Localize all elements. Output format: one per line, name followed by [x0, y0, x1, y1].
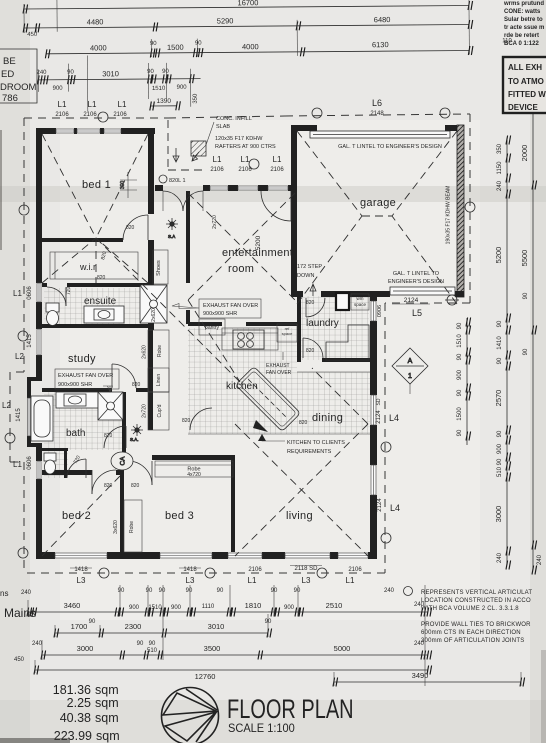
scan band — [0, 186, 546, 202]
svg-text:1415: 1415 — [16, 408, 22, 422]
door laundry bottom — [303, 338, 323, 358]
svg-text:DOWN: DOWN — [297, 273, 314, 279]
svg-text:820: 820 — [299, 420, 308, 426]
svg-text:2x620: 2x620 — [151, 308, 157, 322]
svg-text:0606: 0606 — [27, 456, 33, 470]
svg-text:90: 90 — [457, 429, 463, 436]
svg-text:2124: 2124 — [404, 297, 419, 304]
svg-text:1390: 1390 — [156, 98, 171, 105]
roof line bed2 — [42, 476, 120, 556]
svg-text:300mm OF ARTICULATION JOINT: 300mm OF ARTICULATION JOINTS — [421, 638, 524, 644]
right vertical dim line V1 — [466, 318, 468, 445]
svg-text:820: 820 — [104, 433, 113, 439]
laundry left wall — [297, 297, 301, 358]
smoke alarm entry — [166, 218, 178, 239]
svg-text:90: 90 — [523, 348, 529, 355]
svg-text:2148: 2148 — [370, 111, 384, 117]
ref space — [277, 324, 297, 342]
bed2/bed3 wall — [120, 475, 124, 552]
svg-text:laundry: laundry — [306, 318, 339, 329]
svg-text:REPRESENTS VERTICAL ARTICULA: REPRESENTS VERTICAL ARTICULAT — [421, 590, 532, 596]
svg-text:450: 450 — [14, 657, 25, 663]
bottom dim row D 12760 — [35, 669, 428, 671]
svg-text:90: 90 — [457, 353, 463, 360]
svg-text:172 STEP: 172 STEP — [297, 264, 322, 270]
svg-text:2300: 2300 — [125, 622, 142, 631]
svg-text:Robe: Robe — [157, 345, 163, 357]
svg-text:2570: 2570 — [494, 390, 503, 407]
bottom dim row B — [55, 632, 268, 634]
svg-text:BE: BE — [3, 56, 16, 67]
door kitchen hall — [190, 408, 212, 430]
garage right wall — [457, 125, 464, 297]
svg-text:KITCHEN TO CLIENTS: KITCHEN TO CLIENTS — [287, 440, 345, 446]
svg-text:90: 90 — [118, 588, 125, 594]
svg-text:3000: 3000 — [77, 644, 94, 653]
right vertical dim line V3 — [532, 60, 534, 570]
svg-text:240: 240 — [21, 590, 32, 596]
svg-text:sqm: sqm — [95, 683, 119, 697]
svg-text:0906: 0906 — [377, 305, 383, 317]
ceiling symbol CA — [111, 452, 133, 470]
svg-text:90: 90 — [265, 619, 272, 625]
svg-text:L3: L3 — [186, 576, 195, 585]
sqm figures — [53, 683, 120, 743]
bed3 robe — [155, 461, 233, 477]
svg-text:L5: L5 — [412, 308, 422, 318]
svg-text:90: 90 — [149, 641, 156, 647]
svg-text:240: 240 — [32, 641, 43, 647]
svg-text:90: 90 — [497, 357, 503, 364]
door bath — [104, 426, 126, 448]
svg-text:EXHAUST: EXHAUST — [266, 363, 290, 369]
svg-text:3500: 3500 — [204, 644, 221, 653]
svg-text:3490: 3490 — [412, 671, 429, 680]
svg-text:wm: wm — [357, 296, 364, 301]
svg-text:4000: 4000 — [90, 43, 107, 52]
interior wall study/bath — [42, 388, 112, 392]
bath tub — [31, 396, 53, 441]
svg-text:PROVIDE WALL TIES TO BRICK: PROVIDE WALL TIES TO BRICKWOR — [421, 622, 531, 628]
svg-text:wrms prutund: wrms prutund — [503, 1, 544, 7]
svg-text:510: 510 — [147, 648, 158, 654]
svg-text:12760: 12760 — [195, 672, 216, 681]
svg-text:space: space — [354, 302, 367, 307]
door bed1 — [123, 215, 148, 240]
svg-text:2106: 2106 — [55, 112, 69, 118]
svg-text:2106: 2106 — [83, 112, 97, 118]
door study — [112, 364, 136, 388]
svg-text:350: 350 — [193, 93, 199, 104]
exterior wall left — [36, 128, 42, 283]
svg-text:181.36: 181.36 — [53, 683, 91, 697]
svg-text:2106: 2106 — [210, 167, 224, 173]
svg-text:2000: 2000 — [520, 145, 529, 162]
svg-text:L1: L1 — [13, 460, 22, 469]
svg-text:Robe: Robe — [129, 521, 135, 533]
svg-text:720: 720 — [66, 286, 72, 295]
bottom right notes — [404, 587, 533, 645]
svg-text:EXHAUST FAN OVER: EXHAUST FAN OVER — [58, 373, 113, 379]
svg-text:TO ATMO: TO ATMO — [508, 77, 544, 86]
articulation circles bottom — [99, 568, 109, 578]
porch arrows — [173, 148, 179, 162]
tiled floor ensuite — [44, 288, 142, 324]
kitchen bench — [222, 328, 278, 350]
svg-text:L1: L1 — [248, 576, 257, 585]
svg-text:1: 1 — [408, 373, 412, 380]
wc toilet — [44, 453, 56, 474]
svg-text:Linen: Linen — [156, 374, 162, 386]
svg-text:90: 90 — [186, 588, 193, 594]
svg-text:1150: 1150 — [497, 161, 503, 175]
svg-text:90: 90 — [195, 41, 202, 47]
tiled floor wc — [44, 450, 68, 478]
svg-text:0606: 0606 — [27, 286, 33, 300]
eave top — [24, 114, 470, 118]
svg-text:GAL. T LINTEL TO: GAL. T LINTEL TO — [393, 271, 440, 277]
svg-text:2106: 2106 — [270, 167, 284, 173]
bottom windows — [55, 553, 368, 558]
svg-text:900: 900 — [129, 605, 140, 611]
garage rear lintel — [390, 287, 455, 295]
windows bed1 top — [56, 129, 121, 133]
svg-text:RAFTERS AT 900 CTRS: RAFTERS AT 900 CTRS — [215, 144, 276, 150]
bed2/3 robe strip — [124, 500, 142, 552]
svg-text:300: 300 — [120, 181, 126, 190]
floor plan title — [227, 694, 354, 725]
wm space — [351, 294, 369, 310]
svg-text:3460: 3460 — [64, 601, 81, 610]
svg-text:S.A.: S.A. — [130, 437, 139, 442]
exhaust device box — [503, 57, 546, 113]
dim 300 bed1 — [120, 172, 137, 198]
svg-text:900: 900 — [497, 443, 503, 454]
svg-text:90: 90 — [497, 430, 503, 437]
svg-text:dining: dining — [312, 412, 343, 424]
svg-text:900x900 SHR: 900x900 SHR — [58, 382, 92, 388]
island bench — [235, 366, 300, 431]
interior wall ensuite/study — [42, 324, 148, 328]
door laundry top — [306, 298, 325, 317]
svg-text:REQUIREMENTS: REQUIREMENTS — [287, 449, 332, 455]
svg-text:90: 90 — [217, 588, 224, 594]
svg-text:820: 820 — [126, 225, 135, 231]
svg-text:tr acte ssue m: tr acte ssue m — [504, 25, 544, 31]
svg-text:900: 900 — [53, 86, 64, 92]
svg-text:2x720: 2x720 — [212, 215, 218, 229]
svg-text:900x900 SHR: 900x900 SHR — [203, 311, 237, 317]
svg-text:L2: L2 — [15, 352, 24, 361]
svg-text:garage: garage — [360, 197, 396, 209]
svg-text:ns: ns — [0, 589, 8, 598]
svg-text:L1: L1 — [273, 155, 282, 164]
svg-text:190x35 F17 KDHW BEAM: 190x35 F17 KDHW BEAM — [446, 186, 452, 245]
stove — [233, 330, 264, 349]
door ensuite — [47, 287, 66, 306]
svg-text:240: 240 — [384, 588, 395, 594]
section marker A1 — [392, 348, 428, 394]
eave bottom — [24, 572, 385, 574]
svg-text:2118 SD: 2118 SD — [295, 566, 319, 572]
svg-text:1500: 1500 — [167, 43, 184, 52]
svg-text:1410: 1410 — [497, 336, 503, 350]
bath vanity — [56, 392, 98, 408]
svg-text:L1: L1 — [241, 155, 250, 164]
svg-text:90: 90 — [89, 619, 96, 625]
svg-text:kitchen: kitchen — [226, 381, 258, 392]
wc wall — [42, 448, 68, 451]
svg-text:pantry: pantry — [205, 325, 219, 331]
svg-text:240: 240 — [497, 552, 503, 563]
svg-text:2106: 2106 — [348, 567, 362, 573]
svg-text:1510: 1510 — [457, 334, 463, 348]
svg-text:A: A — [408, 358, 413, 365]
svg-text:L4: L4 — [390, 503, 400, 513]
svg-text:2106: 2106 — [113, 112, 127, 118]
svg-text:ED: ED — [1, 69, 14, 80]
bath shower — [98, 392, 123, 420]
svg-text:sqm: sqm — [95, 711, 119, 725]
svg-text:L2: L2 — [2, 401, 11, 410]
ensuite vanity — [84, 306, 124, 323]
svg-text:bed 3: bed 3 — [165, 510, 194, 522]
bottom dim row C — [42, 654, 428, 656]
svg-text:1510: 1510 — [148, 605, 162, 611]
svg-text:5290: 5290 — [217, 16, 234, 25]
svg-text:CA: CA — [120, 456, 127, 466]
svg-text:sqm: sqm — [96, 729, 120, 743]
interior wall wir/ensuite — [42, 283, 47, 287]
svg-text:2106: 2106 — [248, 567, 262, 573]
top dim line row4 — [39, 79, 201, 80]
robe column wall — [148, 324, 153, 430]
wir robe shelving — [50, 252, 138, 279]
svg-text:Cup'd: Cup'd — [157, 404, 163, 417]
svg-text:900: 900 — [177, 85, 188, 91]
edge artifacts — [0, 130, 2, 250]
kitchen top wall — [188, 322, 222, 326]
bed3/living wall — [231, 455, 235, 552]
bottom dim row A — [28, 611, 428, 613]
svg-text:240: 240 — [497, 180, 503, 191]
svg-text:350: 350 — [497, 143, 503, 154]
svg-text:2.25: 2.25 — [67, 696, 91, 710]
dim 1390 — [151, 105, 177, 107]
svg-text:820L 1: 820L 1 — [169, 178, 186, 184]
svg-text:S.A: S.A — [168, 234, 175, 239]
bath bay walls — [27, 377, 42, 381]
bed2 top wall — [42, 470, 92, 475]
svg-text:L6: L6 — [372, 98, 382, 108]
roof valley to kitchen — [96, 238, 240, 382]
vignette — [0, 0, 30, 743]
svg-text:SD: SD — [376, 398, 382, 405]
annotation exhaust fan bath — [55, 369, 119, 392]
svg-text:90: 90 — [457, 389, 463, 396]
entry wall — [155, 185, 163, 191]
svg-text:820: 820 — [97, 275, 106, 281]
svg-text:1500: 1500 — [457, 407, 463, 421]
svg-text:786: 786 — [2, 93, 18, 104]
svg-text:L3: L3 — [77, 576, 86, 585]
svg-text:3x620: 3x620 — [113, 520, 119, 534]
svg-text:1810: 1810 — [245, 601, 262, 610]
svg-text:40.38: 40.38 — [60, 711, 91, 725]
porch outline dashed — [168, 120, 204, 170]
svg-text:450: 450 — [27, 32, 38, 38]
window left 0606 ensuite — [37, 283, 41, 302]
door bed2 — [92, 470, 116, 494]
svg-text:L1: L1 — [118, 100, 127, 109]
svg-text:FITTED W: FITTED W — [508, 90, 546, 99]
svg-text:WITH BCA VOLUME 2 CL. 3.3: WITH BCA VOLUME 2 CL. 3.3.1.8 — [421, 606, 519, 612]
svg-text:w.i.r: w.i.r — [79, 262, 96, 272]
svg-text:900: 900 — [171, 605, 182, 611]
svg-text:1110: 1110 — [202, 604, 215, 610]
bed1 top wall with windows — [36, 128, 56, 134]
tiled floor bath — [44, 392, 122, 450]
svg-text:CONE: watts: CONE: watts — [504, 9, 541, 15]
laundry bench — [326, 325, 369, 360]
svg-text:sqm: sqm — [95, 696, 119, 710]
svg-text:5000: 5000 — [334, 644, 351, 653]
articulation circles right — [465, 202, 475, 212]
svg-text:2x620: 2x620 — [142, 345, 148, 359]
ent room left wall — [186, 191, 190, 283]
svg-text:room: room — [228, 263, 254, 275]
annotation exhaust fan ensuite — [172, 299, 261, 318]
hall wall below bed1 door — [148, 240, 154, 330]
garage bottom wall — [291, 291, 303, 297]
window left 0606 wc — [37, 461, 41, 479]
svg-text:90: 90 — [497, 320, 503, 327]
garage corner marker — [445, 295, 459, 305]
door wc — [67, 459, 86, 478]
tile edge line — [188, 433, 370, 435]
svg-text:DROOM: DROOM — [0, 82, 37, 93]
top left cut box — [0, 49, 37, 104]
door ent/garage — [261, 191, 291, 221]
svg-text:5500: 5500 — [520, 250, 529, 267]
svg-text:LOCATION CONSTRUCTED IN ACC: LOCATION CONSTRUCTED IN ACCO — [421, 598, 531, 604]
wir shoes shelf — [153, 250, 168, 284]
pantry — [199, 319, 225, 335]
entry double doors — [163, 191, 183, 211]
svg-text:4x720: 4x720 — [187, 472, 201, 478]
svg-text:820: 820 — [132, 382, 141, 388]
eave right house — [384, 303, 386, 573]
porch conc infill hatch — [191, 141, 206, 156]
svg-text:SCALE 1:100: SCALE 1:100 — [228, 723, 295, 735]
svg-text:3010: 3010 — [208, 622, 225, 631]
top dim line row2 — [24, 25, 469, 28]
svg-text:1700: 1700 — [71, 622, 88, 631]
logo — [162, 688, 219, 743]
svg-text:L4: L4 — [389, 413, 399, 423]
svg-text:4480: 4480 — [87, 17, 104, 26]
entry wall windows — [210, 186, 288, 190]
svg-text:2106: 2106 — [238, 167, 252, 173]
roof lines living X — [235, 368, 368, 556]
svg-text:90: 90 — [457, 322, 463, 329]
bed3 top wall — [152, 455, 235, 460]
svg-text:L3: L3 — [302, 576, 311, 585]
svg-text:90: 90 — [271, 588, 278, 594]
articulation circles left — [19, 205, 29, 215]
svg-text:820: 820 — [131, 483, 140, 489]
top dim line 16700 — [24, 6, 469, 9]
porch downpipe label — [159, 175, 167, 183]
svg-text:900: 900 — [284, 605, 295, 611]
svg-text:GAL. T LINTEL TO ENGINEER'S DE: GAL. T LINTEL TO ENGINEER'S DESIGN — [338, 144, 442, 150]
svg-text:90: 90 — [497, 458, 503, 465]
bath right wall — [122, 392, 126, 452]
svg-text:1415: 1415 — [27, 334, 33, 348]
roof lines ent room — [188, 193, 297, 302]
svg-text:SLAB: SLAB — [216, 124, 230, 130]
svg-text:1510: 1510 — [152, 86, 166, 92]
svg-text:bed 1: bed 1 — [82, 179, 111, 191]
svg-text:bath: bath — [66, 428, 85, 439]
svg-text:900: 900 — [457, 369, 463, 380]
laundry bottom wall — [297, 358, 301, 362]
svg-text:6130: 6130 — [372, 40, 389, 49]
door bed3 — [128, 461, 152, 485]
svg-text:90: 90 — [294, 588, 301, 594]
svg-text:820: 820 — [104, 483, 113, 489]
svg-text:FAN OVER: FAN OVER — [266, 370, 292, 376]
svg-text:120x35 F17 KDHW: 120x35 F17 KDHW — [215, 136, 263, 142]
svg-text:2124: 2124 — [377, 498, 383, 512]
tiled floor laundry — [301, 296, 369, 360]
roof lines garage — [297, 131, 457, 304]
smoke alarm hall — [130, 424, 143, 442]
window left 1415 study — [37, 329, 41, 355]
svg-text:5200: 5200 — [494, 247, 503, 264]
svg-text:L1: L1 — [88, 100, 97, 109]
svg-text:DEVICE: DEVICE — [508, 103, 538, 112]
svg-text:90: 90 — [162, 69, 169, 75]
bottom dim row E 3490 — [334, 681, 521, 683]
svg-text:L1: L1 — [13, 289, 22, 298]
eave left — [10, 118, 24, 573]
garage door lintel — [310, 131, 450, 138]
svg-text:FLOOR PLAN: FLOOR PLAN — [227, 694, 354, 725]
svg-text:820: 820 — [306, 300, 315, 306]
svg-text:ENGINEER'S DESIGN: ENGINEER'S DESIGN — [388, 279, 444, 285]
svg-text:4000: 4000 — [242, 42, 259, 51]
svg-text:L1: L1 — [346, 576, 355, 585]
garage left wall — [291, 125, 297, 296]
svg-text:L1: L1 — [213, 155, 222, 164]
bottom wall — [36, 552, 55, 559]
svg-text:5200: 5200 — [255, 235, 262, 250]
svg-text:2510: 2510 — [326, 601, 343, 610]
svg-text:bed 2: bed 2 — [62, 510, 91, 522]
svg-text:240: 240 — [537, 554, 543, 565]
bed1 right wall — [148, 128, 154, 214]
svg-text:820: 820 — [182, 418, 191, 424]
svg-text:rde be retert: rde be retert — [504, 33, 539, 39]
svg-text:820: 820 — [306, 348, 315, 354]
svg-text:L1: L1 — [58, 100, 67, 109]
house right wall — [370, 296, 377, 301]
study robe column — [148, 330, 169, 430]
svg-text:600mm CTS IN EACH DIRECTIO: 600mm CTS IN EACH DIRECTION — [421, 630, 521, 636]
svg-text:90: 90 — [137, 641, 144, 647]
garage top wall — [291, 125, 317, 131]
